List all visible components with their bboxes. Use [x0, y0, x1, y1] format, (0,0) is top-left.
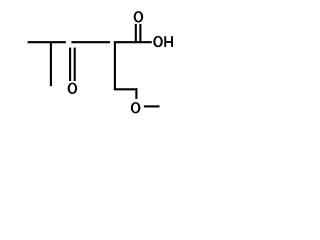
atom label O acid carbonyl — [134, 11, 144, 22]
double bond acid C=O line 1 — [135, 24, 137, 42]
atom label O ketone — [68, 83, 78, 94]
double bond ketone C=O line 2 — [74, 48, 76, 81]
bond CH2-CH2 horizontal — [114, 88, 138, 90]
atom label O ether — [131, 102, 141, 113]
atom label H of OH: right stem — [171, 36, 173, 47]
bond CH-CH3 (vertical methyl down) — [50, 43, 52, 86]
atom label O of OH hydroxyl — [153, 36, 163, 47]
atom label H of OH: left stem — [164, 36, 166, 47]
bond CH2-O ether short vertical — [135, 88, 137, 99]
atom label H of OH: crossbar — [166, 41, 172, 43]
double bond ketone C=O line 1 — [69, 48, 71, 81]
bond O-CH3 methyl ether — [144, 105, 160, 107]
bond alpha C down to CH2 — [114, 42, 116, 89]
bond CH3-CH (left methyl to isopropyl CH) — [28, 41, 66, 43]
double bond acid C=O line 2 — [139, 24, 141, 42]
bond alpha C to carboxyl C and C-OH — [114, 41, 152, 43]
bond C2-C3 (carbonyl C to alpha C) — [71, 41, 110, 43]
